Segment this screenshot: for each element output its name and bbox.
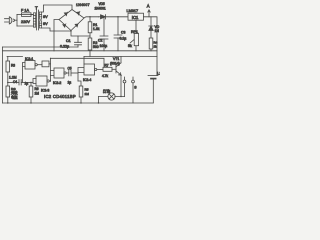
svg-text:A: A (147, 4, 150, 9)
svg-text:光敏: 光敏 (11, 90, 18, 95)
svg-text:1µ: 1µ (25, 81, 29, 85)
wire to IC2-2 inputs (51, 71, 55, 76)
transistor VT1 9014 (116, 57, 121, 97)
wire bridge bottom corner down and right (71, 31, 90, 37)
capacitor C2 (100, 17, 108, 51)
svg-text:R6: R6 (35, 87, 39, 91)
bridge rectifier diamond 4x1N4007 (59, 10, 84, 31)
wire plug to split bar (14, 19, 17, 21)
svg-text:1k: 1k (154, 45, 158, 49)
svg-text:F 1A: F 1A (21, 9, 29, 13)
svg-text:LM317: LM317 (127, 9, 139, 13)
diode D2 (top-right arm) (77, 11, 80, 15)
lamp left drop (98, 97, 100, 104)
gate VDD stub (84, 51, 90, 64)
svg-text:1M: 1M (35, 92, 40, 96)
svg-text:0.22µ: 0.22µ (60, 45, 69, 49)
wire split to fuse (top) (17, 14, 22, 16)
svg-text:C5: C5 (68, 66, 72, 70)
svg-text:R5: R5 (85, 88, 89, 92)
svg-text:1M: 1M (85, 92, 90, 96)
svg-text:灯泡: 灯泡 (103, 89, 111, 94)
transformer secondary winding 1 (39, 12, 41, 19)
gate IC2-2 (54, 68, 69, 78)
svg-text:IC2-1: IC2-1 (25, 57, 33, 61)
resistor R4 right column (149, 31, 153, 51)
wire bridge right corner to VD5 (84, 17, 99, 18)
svg-text:5k: 5k (128, 44, 132, 48)
svg-text:9V: 9V (43, 22, 48, 26)
svg-text:电阻: 电阻 (11, 94, 18, 99)
svg-text:VT1: VT1 (113, 57, 119, 61)
wire to IC2-4 inputs (78, 68, 84, 82)
svg-text:9V: 9V (43, 15, 48, 19)
junction dots (7, 16, 137, 104)
svg-text:C4: C4 (13, 80, 17, 84)
transformer core (37, 10, 39, 30)
regulator IC1 LM317 (128, 13, 144, 20)
svg-text:1.2: 1.2 (157, 72, 160, 76)
capacitor C1 (75, 36, 82, 47)
capacitor C5 (69, 70, 78, 76)
gate IC2-1 (23, 61, 38, 83)
mid rail M2 (3, 50, 158, 52)
diode D4 (bottom-right arm) (75, 23, 78, 27)
svg-text:C3: C3 (121, 31, 125, 35)
svg-text:IC2 CD4011BP: IC2 CD4011BP (44, 94, 76, 99)
node A arrow (148, 10, 150, 17)
switch S (123, 77, 134, 103)
svg-text:R3: R3 (11, 64, 15, 68)
resistor R5 (78, 81, 83, 103)
svg-text:1N4001: 1N4001 (95, 7, 106, 11)
photoresistor RG (6, 86, 10, 103)
wire IC1 adj down to RP1 (135, 20, 137, 33)
svg-text:IC2-3: IC2-3 (41, 89, 49, 93)
svg-text:1N: 1N (155, 29, 160, 33)
mid rail M1 (3, 46, 79, 48)
AC plug P (5, 17, 15, 24)
left edge vertical (2, 47, 4, 103)
wire split to transformer (bottom) (17, 25, 34, 27)
svg-text:C2: C2 (98, 39, 102, 43)
lamp (99, 93, 125, 100)
bottom rail (3, 102, 154, 104)
capacitor C4 (8, 80, 31, 86)
gate IC2-4 (84, 64, 103, 75)
resistor R2 (88, 36, 92, 51)
diode D3 (bottom-left arm) (63, 24, 66, 28)
wire IC1 output to right edge (144, 17, 158, 76)
svg-text:560: 560 (93, 45, 99, 49)
potentiometer RP1 (130, 34, 139, 51)
diode D1 (top-left arm) (64, 12, 67, 16)
resistor R7 (103, 67, 116, 71)
svg-text:IC2-4: IC2-4 (83, 78, 91, 82)
svg-text:T: T (35, 6, 38, 11)
resistor R5 (29, 83, 33, 104)
gate IC2-3 (31, 76, 51, 86)
svg-text:(9014): (9014) (110, 62, 120, 66)
capacitor C3 (114, 17, 122, 51)
svg-text:C1: C1 (66, 39, 71, 43)
svg-text:1.2M: 1.2M (9, 76, 17, 80)
wire secondary top to bridge top corner (42, 5, 72, 12)
transformer T primary winding (31, 13, 36, 27)
transformer secondary winding 2 (39, 21, 41, 28)
split bar (16, 15, 18, 27)
diode VD5 (99, 15, 129, 19)
wire secondary bottom to bridge bottom corner (42, 28, 71, 31)
svg-text:IC2-2: IC2-2 (53, 81, 61, 85)
wire bridge left corner down to rail (54, 20, 59, 52)
svg-text:4.7k: 4.7k (102, 74, 108, 78)
svg-text:1.8k: 1.8k (93, 27, 100, 31)
svg-text:1N4007: 1N4007 (76, 3, 90, 7)
svg-text:100µ: 100µ (100, 44, 108, 48)
small box (gate stage 2) (37, 61, 50, 67)
feedback wire (51, 58, 105, 81)
diode VD6 (right column) (149, 17, 153, 31)
resistor R3 (lower left) (6, 57, 10, 87)
svg-text:RP1: RP1 (131, 30, 138, 34)
mid rail M3 right (84, 56, 157, 58)
mid rail M3 left (7, 56, 23, 58)
resistor R1 (88, 17, 92, 36)
svg-text:220V: 220V (21, 20, 30, 24)
svg-text:1µ: 1µ (68, 81, 72, 85)
fuse F 1A (22, 13, 35, 17)
battery GB 1.2V (148, 76, 158, 103)
svg-text:R7: R7 (105, 63, 109, 67)
svg-text:IC1: IC1 (132, 15, 139, 20)
svg-text:0.1µ: 0.1µ (120, 37, 127, 41)
